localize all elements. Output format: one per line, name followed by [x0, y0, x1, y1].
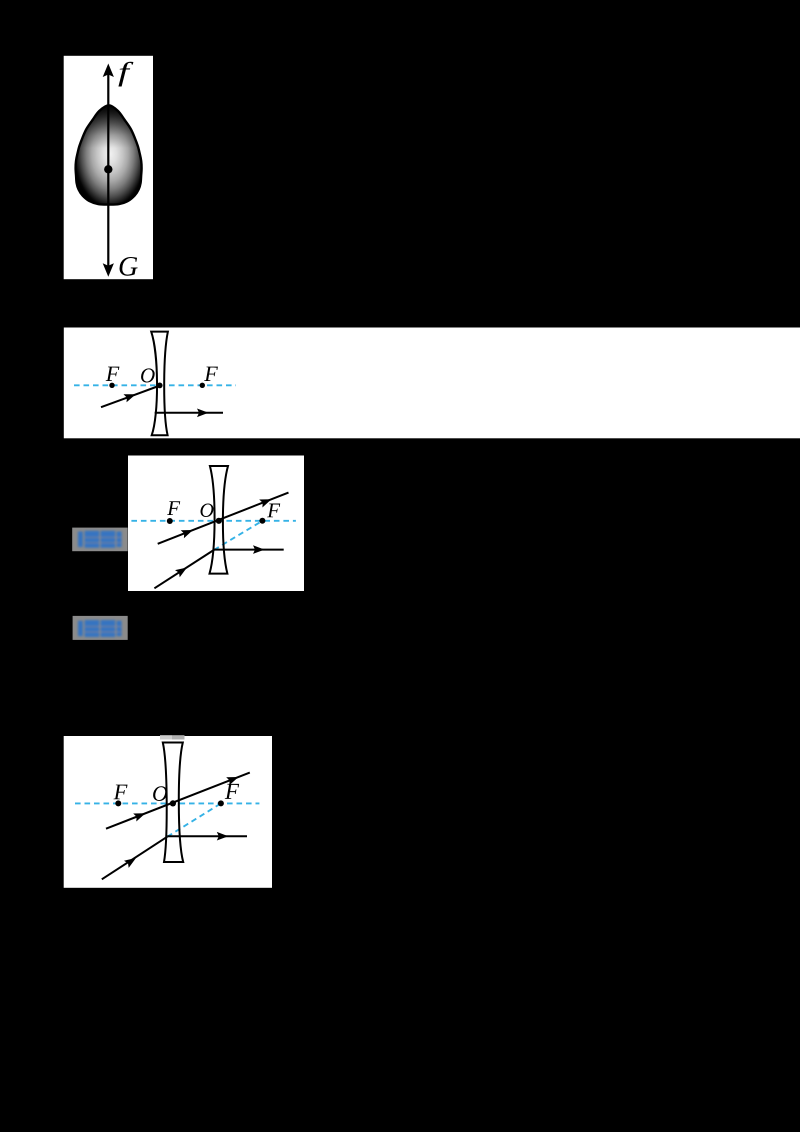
O dot	[157, 383, 163, 389]
center dot	[104, 165, 112, 173]
label F right	[225, 784, 239, 799]
principal axis dashed	[131, 520, 296, 522]
F left dot	[167, 518, 173, 524]
label O	[201, 504, 214, 517]
principal axis dashed	[74, 384, 236, 386]
droplet	[76, 105, 142, 204]
label F left	[113, 785, 127, 800]
F right dot	[259, 518, 265, 524]
label O	[141, 368, 155, 382]
arrowhead incoming	[124, 394, 136, 402]
principal axis dashed	[75, 802, 259, 804]
label O	[153, 786, 167, 801]
outgoing horizontal ray	[155, 412, 223, 414]
incoming ray to O	[101, 386, 160, 408]
F right dot	[200, 383, 205, 388]
label F right	[204, 367, 218, 381]
arrowhead ray1 outgoing	[259, 499, 271, 507]
F right dot	[218, 800, 224, 806]
label f	[118, 62, 133, 87]
gray notch on top edge	[160, 735, 172, 739]
label G	[120, 257, 138, 276]
O dot	[170, 800, 176, 806]
arrowhead ray2 emergent	[253, 545, 265, 554]
dark top overlay of droplet	[74, 104, 144, 150]
arrowhead ray2	[124, 858, 136, 868]
concave lens	[210, 466, 229, 574]
vertical force line	[107, 70, 109, 270]
ray2 incoming	[102, 837, 168, 880]
ray2 emergent horizontal	[214, 549, 284, 551]
arrowhead ray1 incoming	[181, 530, 193, 538]
F left dot	[109, 383, 114, 388]
label F left	[167, 501, 180, 515]
label F left	[106, 367, 120, 381]
label F right	[267, 504, 280, 518]
arrowhead ray1 incoming	[133, 813, 145, 821]
ray2 incoming	[154, 550, 214, 588]
arrowhead ray2	[175, 568, 187, 578]
F left dot	[115, 800, 121, 806]
concave lens	[163, 743, 183, 863]
O dot	[216, 518, 222, 524]
arrowhead ray2 emergent	[217, 832, 229, 841]
ray through O	[106, 773, 250, 829]
down arrowhead G	[103, 263, 114, 277]
ray2 emergent horizontal	[167, 835, 247, 837]
arrowhead ray1 outgoing	[226, 777, 238, 785]
cyan dashed construction line to F	[214, 521, 262, 550]
up arrowhead f	[103, 64, 114, 78]
line over droplet	[107, 105, 109, 205]
arrowhead outgoing	[197, 409, 209, 418]
concave lens	[151, 332, 168, 436]
ray through O	[158, 493, 289, 544]
cyan dashed construction line to F	[167, 803, 221, 836]
